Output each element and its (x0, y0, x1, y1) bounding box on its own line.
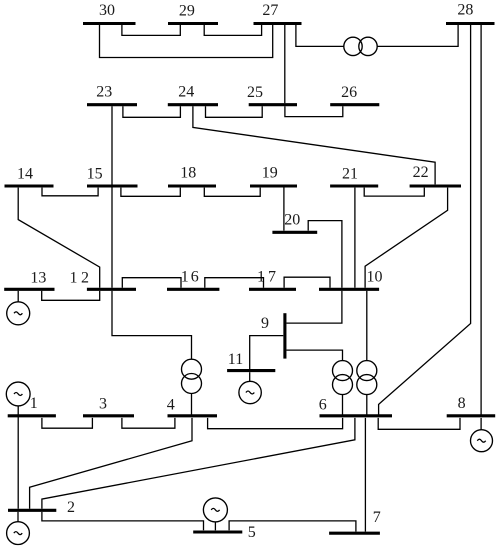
wire 2-4 diagonal (30, 418, 192, 509)
svg-text:27: 27 (262, 2, 278, 19)
bus 8 (447, 414, 496, 417)
wire 12-16 (upper) (122, 278, 181, 288)
generator G2 (7, 522, 30, 545)
wire 27 to transformer T27-28 (296, 25, 344, 46)
svg-text:15: 15 (87, 165, 103, 182)
svg-text:25: 25 (247, 84, 263, 101)
svg-text:14: 14 (17, 165, 33, 182)
wire 27-25 (284, 25, 286, 103)
svg-text:11: 11 (228, 351, 243, 368)
bus 20 (272, 231, 317, 234)
generator G13 (7, 302, 30, 325)
svg-text:13: 13 (30, 269, 46, 286)
transformer T4-12 (182, 359, 202, 379)
wire 10 to transformer T6-10 (366, 291, 368, 361)
wire 21-22 (364, 188, 424, 197)
bus 1 (8, 414, 56, 417)
bus 12 (87, 288, 136, 291)
wire 13-12 (42, 291, 100, 300)
bus 27 (254, 22, 302, 25)
wire 2-5 (42, 512, 204, 530)
generator G5 (203, 498, 227, 522)
wire 9-10 (287, 291, 342, 323)
wire G1 to bus 1 and 1-2 (17, 406, 19, 509)
bus 10 (319, 288, 379, 291)
svg-text:22: 22 (413, 164, 429, 181)
wire transformer T27-28 to 28 (377, 25, 458, 46)
wire 9 to transformer T6-9 (287, 350, 343, 361)
svg-text:1: 1 (30, 395, 38, 412)
bus 23 (87, 103, 137, 106)
bus 15 (87, 184, 138, 187)
bus 2 (8, 509, 56, 512)
generator G8 (471, 430, 493, 452)
wire 28-8 (480, 25, 482, 416)
wire 24-22 diagonal (193, 106, 435, 184)
transformer T6-9 (333, 361, 353, 381)
wire 12-4 via transformer T4-12 (112, 291, 192, 359)
bus 24 (168, 103, 218, 106)
svg-text:12: 12 (70, 269, 93, 286)
bus 9 (vertical) (283, 313, 286, 358)
wire 23-15-12 vertical (111, 106, 113, 287)
wire 2-6 diagonal (42, 418, 355, 509)
wire 14-12 diagonal (18, 188, 100, 288)
wire 11-9 (250, 336, 284, 369)
wire 1-3 (42, 418, 93, 428)
bus 6 (320, 414, 393, 417)
svg-text:23: 23 (96, 84, 112, 101)
wire transformer T4-12 to bus 4 (191, 393, 193, 414)
wire 6-8 (378, 418, 460, 429)
wire 14-15 (42, 188, 98, 196)
wire 5-7 (229, 521, 356, 532)
wire 29-27 (204, 25, 261, 35)
generator G11 lead (249, 372, 251, 381)
bus 19 (250, 184, 297, 187)
bus 7 (329, 532, 380, 535)
svg-text:26: 26 (341, 84, 357, 101)
svg-text:6: 6 (319, 397, 327, 414)
bus 25 (249, 103, 297, 106)
wire 17-10 (upper) (284, 277, 330, 288)
svg-text:16: 16 (181, 269, 201, 286)
wire 19-20 (283, 187, 285, 230)
bus 13 (4, 288, 54, 291)
wire transformer T6-10 to bus 6 (366, 395, 368, 415)
svg-text:21: 21 (342, 165, 358, 182)
wire 25-26 (285, 106, 343, 116)
bus 22 (410, 184, 461, 187)
svg-text:5: 5 (248, 524, 256, 541)
svg-text:10: 10 (367, 269, 383, 286)
bus 16 (167, 288, 219, 291)
wire 4-6 (208, 418, 343, 429)
svg-text:8: 8 (458, 395, 466, 412)
svg-text:3: 3 (99, 396, 107, 413)
svg-text:20: 20 (284, 212, 300, 229)
wire 30-27 (100, 25, 273, 58)
generator G2 lead (17, 512, 19, 522)
wire 23-24 (123, 106, 180, 117)
wire 22-10 diagonal (365, 188, 448, 288)
wire 21-10 (354, 188, 356, 288)
generator G5 lead (214, 522, 216, 530)
svg-text:28: 28 (457, 2, 473, 19)
svg-text:9: 9 (261, 315, 269, 332)
svg-text:29: 29 (179, 2, 195, 19)
transformer T27-28 (344, 37, 362, 55)
wire 3-4 (122, 418, 175, 428)
bus 28 (446, 22, 495, 25)
wire 30-29 (122, 25, 180, 35)
wire transformer T6-9 to bus 6 (342, 395, 344, 415)
wire 28-6 (vertical + diagonal) (379, 25, 471, 415)
bus 29 (168, 22, 218, 25)
bus 4 (168, 414, 218, 417)
wire 24-25 (206, 106, 263, 117)
generator G13 lead (17, 291, 19, 302)
generator G8 lead (480, 418, 482, 430)
svg-text:18: 18 (180, 165, 196, 182)
svg-text:19: 19 (262, 165, 278, 182)
bus 18 (168, 184, 216, 187)
bus 17 (249, 288, 296, 291)
bus 11 (227, 369, 275, 372)
wire 18-19 (204, 188, 260, 197)
bus 26 (330, 103, 379, 106)
wire 15-18 (121, 188, 180, 197)
wire 16-17 (upper) (205, 278, 264, 288)
generator G1 (6, 382, 30, 406)
bus 30 (83, 22, 136, 25)
svg-text:7: 7 (373, 509, 381, 526)
wire 6-7 (364, 418, 366, 532)
bus 3 (83, 414, 134, 417)
svg-text:2: 2 (67, 499, 75, 516)
svg-text:4: 4 (167, 396, 175, 413)
bus 14 (5, 184, 54, 187)
svg-text:24: 24 (178, 83, 194, 100)
svg-text:30: 30 (99, 2, 115, 19)
bus 21 (330, 184, 378, 187)
transformer T6-10 (357, 361, 377, 381)
bus 5 (193, 530, 242, 533)
generator G11 (239, 381, 261, 403)
wire 20-10 (308, 221, 342, 288)
